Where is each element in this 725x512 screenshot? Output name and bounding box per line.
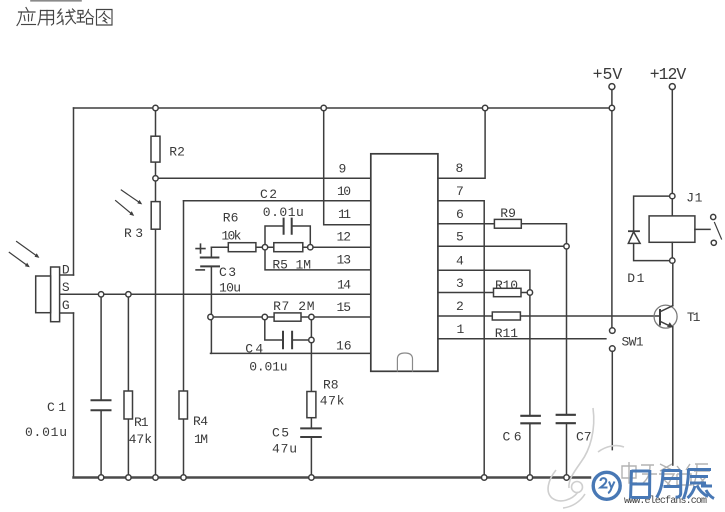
svg-text:+12V: +12V bbox=[650, 65, 687, 84]
diode D1 branch wires bbox=[634, 196, 673, 261]
junction: ground rail at pin7 drop bbox=[482, 475, 487, 480]
watermark character 月 bbox=[657, 470, 681, 498]
svg-text:10: 10 bbox=[337, 184, 351, 199]
junction: ground rail at R3 bbox=[153, 475, 158, 480]
+12V supply terminal bbox=[669, 84, 675, 216]
svg-text:R6: R6 bbox=[223, 210, 239, 225]
resistor R8 bbox=[307, 392, 316, 418]
resistor R5 bbox=[274, 243, 303, 252]
wire: pin 7 down to ground rail bbox=[438, 201, 484, 478]
svg-text:R10: R10 bbox=[495, 278, 518, 293]
svg-text:C3: C3 bbox=[219, 265, 236, 280]
wire: pin 13 line bbox=[265, 247, 371, 270]
wire: vertical R8/C5 branch from R7 node bbox=[310, 317, 312, 392]
junction: R9/pin5 node bbox=[564, 244, 569, 249]
svg-text:12: 12 bbox=[337, 230, 352, 245]
capacitor C7 bbox=[557, 415, 575, 478]
resistor R7 bbox=[274, 313, 301, 321]
wire: pin 10 line bbox=[184, 200, 371, 202]
wire: pin 16 line bbox=[211, 352, 371, 354]
svg-text:11: 11 bbox=[338, 207, 351, 222]
resistor R2 bbox=[151, 108, 160, 178]
svg-text:7: 7 bbox=[456, 184, 464, 199]
svg-text:R9: R9 bbox=[500, 206, 516, 221]
wire: pin 12 row (C3 stub to IC) bbox=[211, 246, 370, 248]
svg-text:6: 6 bbox=[456, 207, 464, 222]
svg-text:S: S bbox=[62, 280, 70, 295]
junction: top rail at pin8 riser bbox=[482, 105, 487, 110]
capacitor C3 (electrolytic) bbox=[201, 247, 219, 353]
svg-text:16: 16 bbox=[336, 339, 352, 354]
resistor R6 bbox=[228, 243, 256, 252]
svg-text:47u: 47u bbox=[272, 442, 297, 457]
svg-text:R7 2M: R7 2M bbox=[273, 299, 314, 314]
svg-text:0.01u: 0.01u bbox=[249, 359, 287, 374]
switch SW1 bbox=[610, 328, 616, 450]
capacitor C2 bbox=[265, 219, 310, 248]
wire: C6 branch vertical bbox=[529, 293, 531, 416]
junction: S line at R1 bbox=[126, 292, 131, 297]
wire: mic D lead bbox=[60, 274, 74, 276]
svg-text:R2: R2 bbox=[169, 145, 185, 160]
junction: R7/C4 right node bbox=[309, 314, 314, 319]
svg-text:J1: J1 bbox=[686, 191, 702, 206]
junction: top rail at pin11 riser bbox=[321, 105, 326, 110]
svg-text:SW1: SW1 bbox=[622, 335, 644, 350]
junction: R10/pin4 node bbox=[527, 290, 532, 295]
junction: ground rail at R4 bbox=[181, 475, 186, 480]
junction: C4 right lead bbox=[309, 337, 314, 342]
junction: R6/R5/C2 node A bbox=[262, 245, 267, 250]
svg-text:R4: R4 bbox=[193, 414, 208, 429]
svg-text:3: 3 bbox=[456, 276, 464, 291]
wire: top +5V rail bbox=[74, 107, 612, 109]
wire: S line (mic S to IC pin 14) bbox=[60, 293, 371, 295]
capacitor C6 bbox=[521, 416, 539, 478]
junction: R5/C2/pin12 node B bbox=[308, 245, 313, 250]
svg-text:D: D bbox=[62, 262, 70, 277]
junction: ground rail at C7 bbox=[564, 475, 569, 480]
watermark logo circle bbox=[593, 472, 620, 499]
top edge smudge bbox=[31, 0, 81, 2]
wire: mic G lead bbox=[60, 312, 74, 314]
wire: relay bottom to T1 collector node bbox=[671, 242, 673, 260]
wire: pin 4 line down to R10 node bbox=[438, 270, 530, 292]
junction: ground rail at C5 bbox=[309, 475, 314, 480]
junction: top rail at +5V bbox=[609, 105, 614, 110]
svg-text:4: 4 bbox=[456, 254, 464, 269]
wire: pin 9 line (R2/R3 node to IC) bbox=[156, 177, 371, 179]
watermark outlined text 电子发烧友 (ghost) bbox=[622, 462, 710, 487]
resistor R9 on pin 6 bbox=[438, 219, 567, 246]
capacitor C5 bbox=[301, 418, 321, 478]
junction: ground rail at R1 bbox=[126, 475, 131, 480]
wire: left rail lower (mic G to ground rail) bbox=[73, 313, 75, 478]
microphone MIC (D/S/G sensor) bbox=[36, 267, 60, 322]
watermark bbox=[548, 408, 714, 508]
+5V supply terminal bbox=[609, 84, 615, 328]
svg-text:15: 15 bbox=[337, 300, 352, 315]
wire: left rail upper (top rail to mic D) bbox=[73, 108, 75, 275]
relay J1 coil bbox=[649, 216, 695, 242]
wire: pin 15 row (R7 line) bbox=[211, 316, 371, 318]
svg-text:47k: 47k bbox=[129, 432, 153, 447]
wire: pin 8 to +5V rail bbox=[438, 108, 485, 178]
junction: top rail at R2 bbox=[153, 105, 158, 110]
op-amp IC U1 (16-pin body) bbox=[371, 154, 438, 371]
light arrows at R3 bbox=[116, 190, 142, 215]
svg-text:R1: R1 bbox=[134, 415, 149, 430]
svg-text:C5: C5 bbox=[272, 426, 289, 441]
watermark character 日 bbox=[631, 470, 650, 499]
svg-text:R8: R8 bbox=[323, 377, 339, 392]
svg-text:G: G bbox=[62, 298, 70, 313]
wire: pin 1 line to SW1 bbox=[438, 338, 606, 340]
svg-text:0.01u: 0.01u bbox=[263, 205, 304, 220]
svg-text:1M: 1M bbox=[194, 432, 208, 447]
title 应用线路图 (hand-drawn glyph strokes) bbox=[17, 8, 112, 26]
wire: C7 branch vertical bbox=[566, 246, 568, 413]
watermark ghost swirl bbox=[548, 408, 624, 508]
wire: pin 11 riser from +5V rail bbox=[324, 108, 371, 225]
svg-text:9: 9 bbox=[339, 162, 347, 177]
svg-text:C7: C7 bbox=[576, 430, 592, 445]
watermark character 辰 bbox=[684, 469, 715, 499]
C3 minus sign bbox=[196, 269, 204, 271]
junction: ground rail at C1 bbox=[98, 475, 103, 480]
svg-text:C2: C2 bbox=[260, 187, 277, 202]
junction: R7/C4 left node bbox=[262, 314, 267, 319]
resistor R4 bbox=[179, 201, 188, 478]
resistor R10 on pin 3 bbox=[438, 288, 530, 296]
svg-text:R5 1M: R5 1M bbox=[272, 258, 311, 273]
junction: R2/R3/pin9 node bbox=[153, 176, 158, 181]
junction: +12V/D1 top node bbox=[670, 193, 675, 198]
capacitor C1 bbox=[92, 294, 111, 477]
junction: relay/D1 bottom node bbox=[670, 258, 675, 263]
svg-text:0.01u: 0.01u bbox=[25, 425, 67, 440]
svg-text:47k: 47k bbox=[320, 393, 345, 408]
svg-text:D1: D1 bbox=[627, 271, 644, 286]
resistor R3 (photoresistor) bbox=[151, 178, 160, 477]
junction: R7 line left node bbox=[208, 314, 213, 319]
svg-text:13: 13 bbox=[337, 253, 352, 268]
transistor T1 (NPN) bbox=[654, 261, 677, 465]
wire: pin 5 line bbox=[438, 245, 567, 247]
relay contact lead bbox=[695, 228, 710, 230]
svg-text:10u: 10u bbox=[219, 280, 241, 295]
svg-text:10k: 10k bbox=[221, 228, 241, 243]
diode D1 bbox=[628, 231, 640, 243]
svg-text:R11: R11 bbox=[495, 326, 519, 341]
capacitor C4 bbox=[265, 317, 312, 348]
junction: ground rail at C6 bbox=[527, 475, 532, 480]
svg-text:T1: T1 bbox=[687, 310, 701, 325]
svg-text:14: 14 bbox=[337, 278, 351, 293]
svg-text:2: 2 bbox=[456, 299, 464, 314]
resistor R11 on pin 2 (to T1 base) bbox=[438, 312, 660, 320]
svg-text:1: 1 bbox=[457, 322, 465, 337]
wire: bottom ground rail bbox=[74, 476, 591, 479]
svg-text:8: 8 bbox=[456, 161, 464, 176]
light arrows at microphone bbox=[9, 242, 39, 267]
junction: S line at C1 bbox=[98, 292, 103, 297]
svg-text:5: 5 bbox=[456, 230, 464, 245]
IC bottom notch bbox=[397, 353, 412, 371]
resistor R1 bbox=[124, 294, 133, 477]
relay contact terminals bbox=[711, 214, 722, 245]
svg-text:+5V: +5V bbox=[593, 65, 623, 84]
C3 plus sign bbox=[196, 244, 205, 253]
